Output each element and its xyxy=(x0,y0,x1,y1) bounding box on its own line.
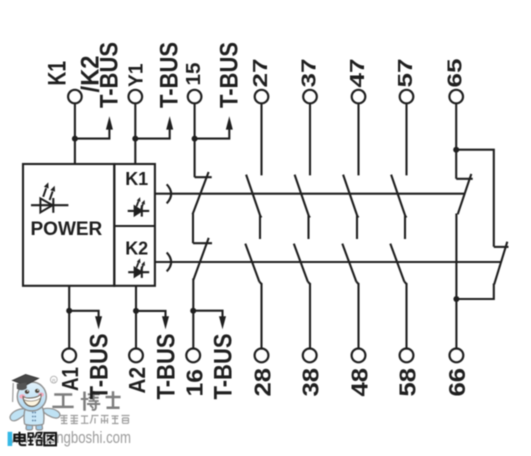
registered mark xyxy=(50,376,57,383)
wire 57 top xyxy=(405,103,407,175)
wire 65 top xyxy=(455,103,457,178)
K2 actuator arc xyxy=(167,253,171,272)
NO contacts 47/48 xyxy=(342,175,358,349)
NO contacts 57/58 xyxy=(390,175,406,349)
T-BUS branch top Y1 xyxy=(135,129,169,139)
terminal A2 xyxy=(129,349,143,363)
65/66 right branch xyxy=(456,150,494,247)
wire A2 bottom xyxy=(135,286,137,349)
body xyxy=(24,407,44,425)
cheeks xyxy=(19,394,25,398)
terminal Y1 xyxy=(129,90,143,104)
wire 15 top xyxy=(194,103,196,177)
graduation cap xyxy=(13,375,39,386)
svg-text:R: R xyxy=(52,378,56,384)
watermark brand text 工博士 (gray) xyxy=(54,392,120,410)
svg-text:15: 15 xyxy=(182,63,205,86)
wire Y1 top xyxy=(134,103,136,164)
wire 15/16 mid xyxy=(192,214,194,244)
svg-text:27: 27 xyxy=(249,59,272,88)
svg-text:48: 48 xyxy=(346,368,372,397)
svg-text:57: 57 xyxy=(394,59,417,88)
svg-text:POWER: POWER xyxy=(31,219,103,240)
士 xyxy=(107,393,120,408)
mascot xyxy=(10,375,60,431)
terminal 38 xyxy=(303,349,317,363)
svg-text:Y1: Y1 xyxy=(125,64,148,88)
T-BUS branch top 15 xyxy=(195,129,230,139)
svg-text:47: 47 xyxy=(346,59,369,88)
NC contact 66 row K2 (right branch) xyxy=(456,242,508,299)
svg-text:K1: K1 xyxy=(125,169,148,189)
图 xyxy=(44,433,56,446)
terminal circles top xyxy=(62,90,463,363)
terminal 66 xyxy=(450,349,464,363)
NO contacts 27/28 xyxy=(245,175,261,349)
svg-text:T-BUS: T-BUS xyxy=(153,334,181,400)
buttons xyxy=(32,412,36,422)
T-BUS branch bottom 16 xyxy=(193,311,222,319)
wire 47 top xyxy=(357,103,359,175)
T-BUS branch bottom A2 xyxy=(136,311,166,319)
terminal K1//K2 xyxy=(68,90,82,104)
svg-text:A1: A1 xyxy=(57,367,83,391)
terminal 48 xyxy=(352,349,366,363)
terminal 28 xyxy=(255,349,269,363)
tassel xyxy=(12,383,15,402)
terminal 57 xyxy=(400,90,414,104)
K1/K2 divider xyxy=(114,225,155,227)
LED power xyxy=(31,182,68,212)
head xyxy=(17,382,46,411)
svg-text:K2: K2 xyxy=(125,238,148,258)
POWER box xyxy=(23,164,114,286)
svg-text:58: 58 xyxy=(394,368,420,397)
wire 16 bottom xyxy=(192,279,194,349)
K1K2 box xyxy=(114,164,155,286)
NO contacts 37/38 xyxy=(294,175,310,349)
node 15/T-BUS xyxy=(192,136,198,142)
eyes xyxy=(25,390,29,394)
node Y1/T-BUS xyxy=(132,136,138,142)
K1 actuator line xyxy=(155,193,465,195)
svg-text:A2: A2 xyxy=(124,367,150,394)
K1 actuator arc xyxy=(167,184,171,203)
node 16/T-BUS xyxy=(190,308,196,314)
legs xyxy=(26,420,33,430)
svg-text:65: 65 xyxy=(444,59,467,88)
node A1/T-BUS xyxy=(66,308,72,314)
wire K1 top xyxy=(74,103,76,164)
terminal 27 xyxy=(255,90,269,104)
LED K1 xyxy=(128,197,150,217)
wire 27 top xyxy=(260,103,262,175)
svg-text:T-BUS: T-BUS xyxy=(95,42,123,108)
blue cursor bar xyxy=(8,432,13,446)
wire 65/66 mid xyxy=(455,214,457,349)
LED K2 xyxy=(128,258,149,278)
T-BUS arrowheads xyxy=(95,116,233,329)
svg-text:16: 16 xyxy=(181,369,207,397)
mouth xyxy=(23,395,41,407)
工 xyxy=(54,395,73,407)
NC contact 15/16 row K2 xyxy=(193,238,212,280)
node 65 branch xyxy=(453,147,459,153)
terminal A1 xyxy=(62,349,76,363)
svg-text:38: 38 xyxy=(298,368,324,397)
terminal 47 xyxy=(352,90,366,104)
node A2/T-BUS xyxy=(133,308,139,314)
terminal 16 xyxy=(186,349,200,363)
svg-text:K1: K1 xyxy=(44,61,72,86)
terminal 58 xyxy=(400,349,414,363)
svg-text:T-BUS: T-BUS xyxy=(215,42,243,108)
wire A1 bottom xyxy=(68,286,70,349)
K2 actuator line xyxy=(155,261,501,263)
博 xyxy=(83,393,86,410)
svg-text:28: 28 xyxy=(249,368,275,397)
terminal 37 xyxy=(303,90,317,104)
T-BUS branch top K1 xyxy=(75,129,110,139)
NC contact 15/16 row K1 xyxy=(193,172,212,214)
label 电路图 (black CJK, drawn) xyxy=(14,432,56,446)
terminal 15 xyxy=(188,90,202,104)
watermark small gray text row 智能工厂服务商 xyxy=(61,416,130,424)
电 xyxy=(14,432,26,445)
svg-text:T-BUS: T-BUS xyxy=(86,334,114,400)
svg-text:37: 37 xyxy=(297,59,320,88)
svg-text:T-BUS: T-BUS xyxy=(210,334,238,400)
NC contact 65 row K1 xyxy=(456,174,473,214)
T-BUS branch bottom A1 xyxy=(69,311,98,319)
svg-text:66: 66 xyxy=(444,368,470,397)
node 66 branch xyxy=(453,296,459,302)
wire 37 top xyxy=(309,103,311,175)
node K1/T-BUS xyxy=(72,136,78,142)
svg-text:T-BUS: T-BUS xyxy=(156,42,184,108)
arms xyxy=(10,409,25,421)
路 xyxy=(28,433,33,437)
terminal 65 xyxy=(449,90,463,104)
